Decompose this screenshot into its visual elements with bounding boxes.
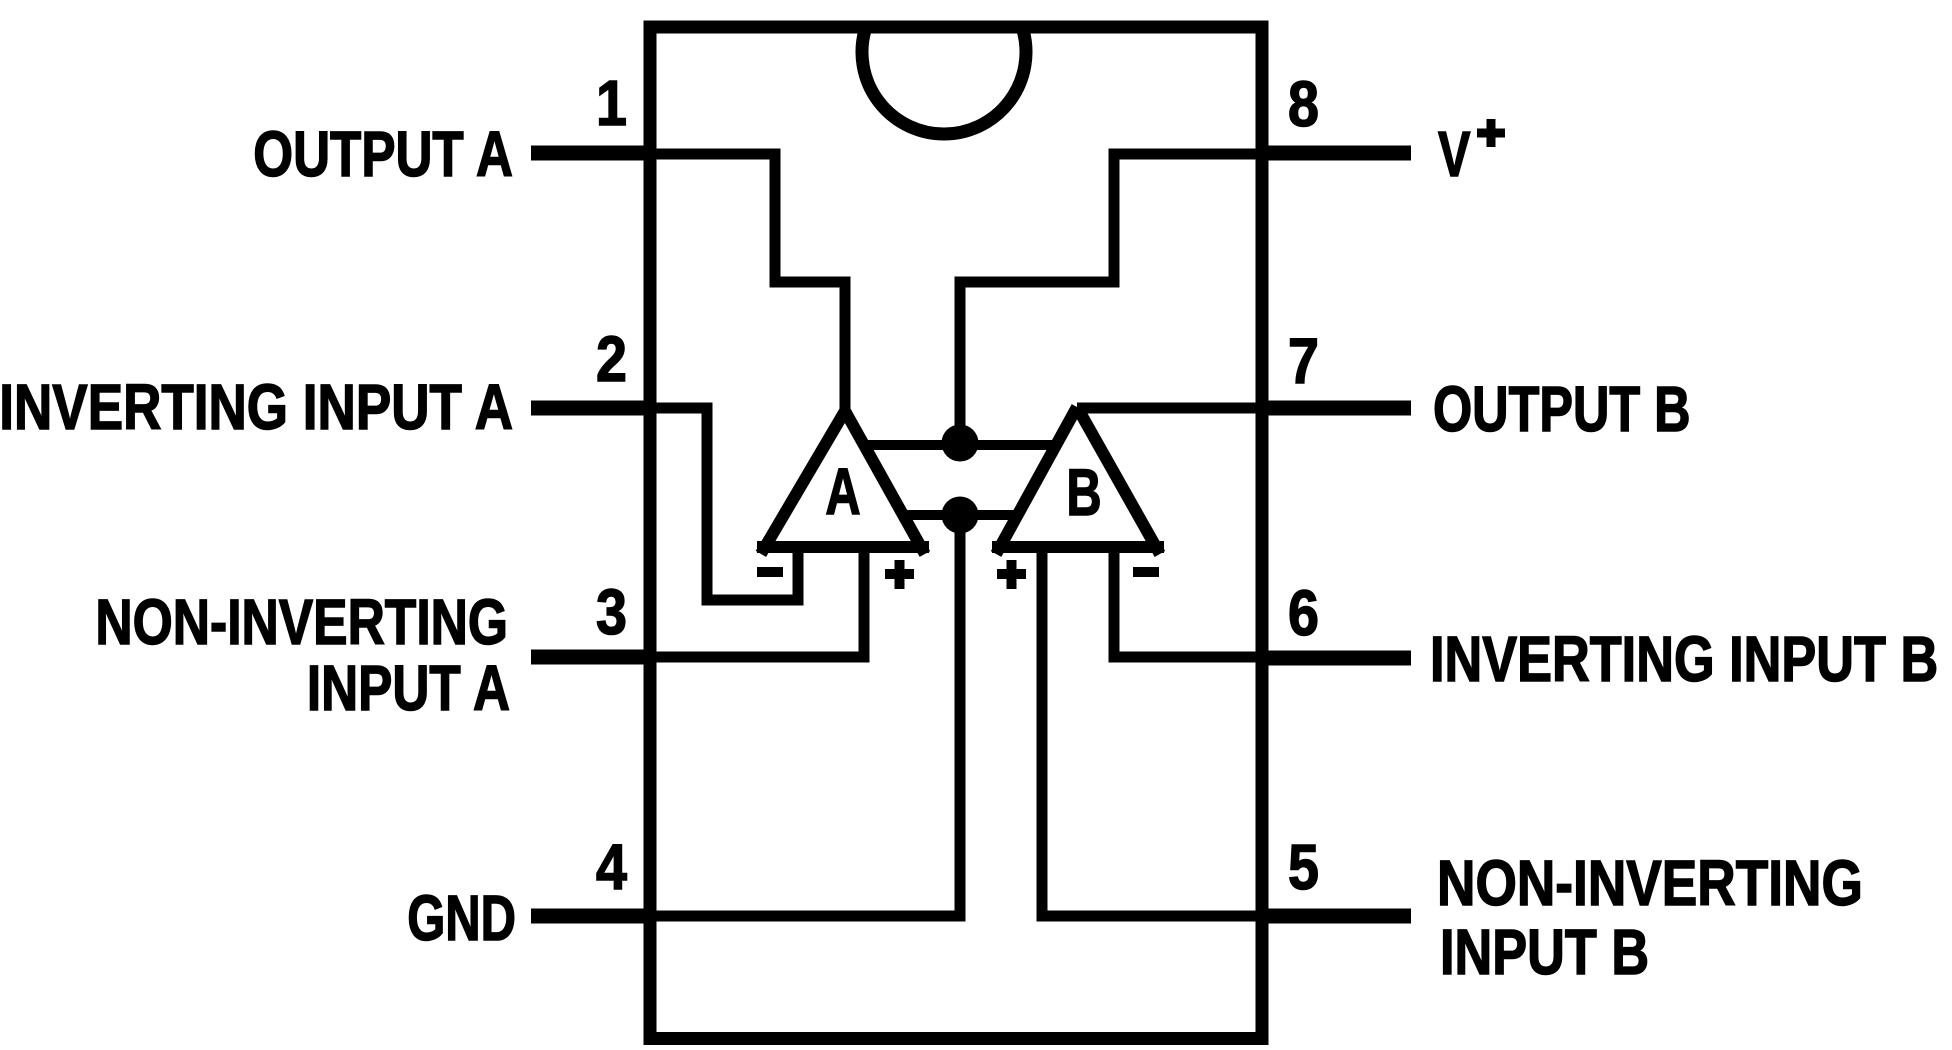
op-amp B label <box>1066 456 1101 530</box>
wire pin7 output B internal <box>1077 403 1262 414</box>
pin number 1 <box>596 67 627 138</box>
node junction dot GND <box>942 497 979 534</box>
svg-text:1: 1 <box>596 67 627 138</box>
pin number 8 <box>1288 68 1319 139</box>
label OUTPUT B <box>1433 374 1691 445</box>
label INPUT B <box>1440 917 1649 988</box>
IC notch <box>862 30 1026 134</box>
pin 2 lead <box>531 401 650 416</box>
wire pin6 inverting input B internal <box>1114 545 1262 657</box>
label INVERTING INPUT B <box>1430 624 1938 695</box>
svg-text:INVERTING INPUT A: INVERTING INPUT A <box>0 372 513 443</box>
svg-text:A: A <box>825 455 860 529</box>
pin number 6 <box>1288 577 1319 648</box>
wire pin8 V+ internal <box>960 154 1262 443</box>
svg-text:4: 4 <box>596 831 628 902</box>
op-amp U1B triangle <box>992 407 1164 554</box>
label OUTPUT A <box>253 120 513 191</box>
svg-text:8: 8 <box>1288 68 1319 139</box>
svg-text:V: V <box>1438 120 1471 191</box>
label NON-INVERTING (A) <box>95 587 508 659</box>
node junction dot V+ <box>942 425 979 462</box>
label V+ superscript plus <box>1477 119 1505 147</box>
pin number 3 <box>596 576 627 647</box>
wire pin1 output A internal <box>650 154 845 420</box>
IC body outline <box>650 27 1262 1039</box>
plus sign op-amp A <box>885 560 914 589</box>
label INPUT A <box>307 654 510 725</box>
svg-text:NON-INVERTING: NON-INVERTING <box>1437 848 1863 919</box>
pin 1 lead <box>531 146 650 161</box>
svg-text:B: B <box>1066 456 1101 530</box>
svg-text:NON-INVERTING: NON-INVERTING <box>95 587 508 659</box>
svg-text:GND: GND <box>407 883 516 955</box>
pin 6 lead <box>1262 651 1411 666</box>
pin number 7 <box>1288 325 1319 396</box>
wire V+ bus to op-amps <box>858 440 1058 450</box>
svg-text:2: 2 <box>596 323 627 394</box>
svg-text:INVERTING INPUT B: INVERTING INPUT B <box>1430 624 1938 695</box>
op-amp A label <box>825 455 860 529</box>
label V+ <box>1438 120 1471 191</box>
pin number 5 <box>1288 831 1319 902</box>
wire pin3 non-inverting input A internal <box>650 545 864 657</box>
op-amp U1A triangle <box>757 411 929 554</box>
svg-text:7: 7 <box>1288 325 1319 396</box>
pin 4 lead <box>531 909 650 924</box>
svg-text:OUTPUT B: OUTPUT B <box>1433 374 1691 445</box>
svg-text:INPUT A: INPUT A <box>307 654 510 725</box>
pin 7 lead <box>1262 401 1411 416</box>
wire pin4 GND internal <box>650 515 960 916</box>
plus sign op-amp B <box>997 560 1026 589</box>
minus sign op-amp B <box>1133 567 1159 577</box>
svg-text:5: 5 <box>1288 831 1319 902</box>
label GND <box>407 883 516 955</box>
svg-text:3: 3 <box>596 576 627 647</box>
wire pin2 inverting input A internal <box>650 408 798 600</box>
label NON-INVERTING (B) <box>1437 848 1863 919</box>
label INVERTING INPUT A <box>0 372 513 443</box>
pin 8 lead <box>1262 146 1411 161</box>
wire pin5 non-inverting input B internal <box>1042 545 1262 916</box>
minus sign op-amp A <box>757 567 783 577</box>
svg-text:INPUT B: INPUT B <box>1440 917 1649 988</box>
pin number 2 <box>596 323 627 394</box>
wire GND bus to op-amps <box>897 510 1020 520</box>
pin number 4 <box>596 831 628 902</box>
svg-text:6: 6 <box>1288 577 1319 648</box>
svg-text:OUTPUT A: OUTPUT A <box>253 120 513 191</box>
pin 5 lead <box>1262 909 1411 924</box>
pin 3 lead <box>531 650 650 665</box>
